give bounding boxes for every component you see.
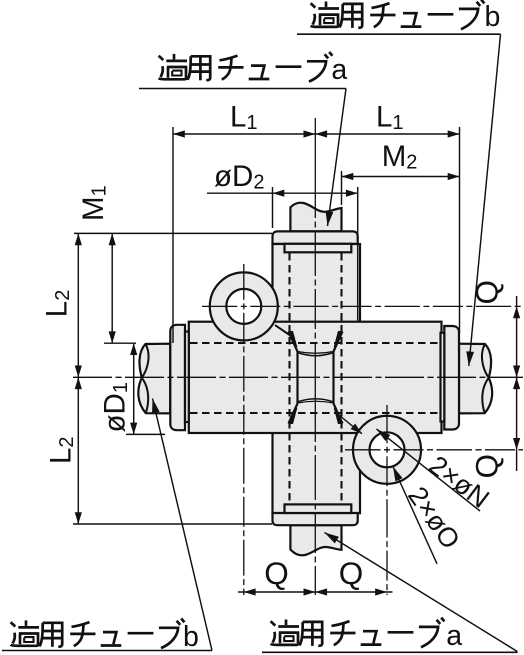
hidden line: tube bore left (vertical) bbox=[288, 253, 290, 504]
collar right lip bbox=[441, 333, 445, 422]
collar bottom lip bbox=[285, 504, 352, 513]
M1 bottom extension line bbox=[104, 342, 136, 344]
center bore funnel bottom-right bbox=[334, 404, 343, 424]
vertical body upper bbox=[273, 244, 361, 322]
collar right (release ring, right) bbox=[444, 326, 459, 430]
center bore shoulder arc bottom bbox=[298, 399, 334, 402]
svg-text:a: a bbox=[331, 54, 347, 86]
chamfer edge at boss2 with arrow bbox=[340, 416, 363, 434]
hidden line: tube bore right (vertical) bbox=[340, 253, 342, 504]
label: tekiyou tube b (bottom left) bbox=[11, 619, 185, 649]
boss1 horizontal centerline bbox=[202, 305, 523, 307]
collar top lip bbox=[285, 244, 352, 253]
M1 dim line bbox=[111, 233, 113, 343]
boss hole bottom-right inner (øN) bbox=[370, 432, 405, 467]
L1 left extension line bbox=[172, 127, 174, 343]
svg-text:b: b bbox=[183, 621, 199, 653]
funnel wedge blobs bbox=[288, 331, 342, 424]
leader 2xoN bbox=[377, 429, 481, 511]
svg-text:b: b bbox=[485, 1, 501, 33]
right tube break wave second curve bbox=[482, 344, 489, 413]
underline top a bbox=[139, 88, 346, 90]
collar top (release ring, top) bbox=[273, 231, 358, 243]
left tube break wave second curve bbox=[142, 344, 149, 413]
collar left lip bbox=[185, 332, 189, 423]
hidden line: tube bore top (horizontal) bbox=[190, 342, 440, 344]
L1 right extension line bbox=[459, 127, 461, 333]
collar bottom (release ring, bottom) bbox=[273, 513, 358, 525]
oD1 bottom extension line bbox=[126, 433, 165, 435]
leader 2xoO bbox=[393, 467, 437, 564]
boss2 vertical centerline bbox=[386, 405, 388, 595]
vertical body lower bbox=[273, 433, 361, 513]
tube a top (applicable tube a, top port) bbox=[290, 203, 341, 232]
L2 lower dim line bbox=[77, 377, 79, 524]
L1 left dim line bbox=[173, 133, 315, 135]
underline top right b bbox=[297, 33, 501, 35]
horizontal body bbox=[189, 322, 442, 433]
label: tekiyou tube b (top right) bbox=[311, 0, 485, 29]
L1 right dim line bbox=[315, 133, 459, 135]
oD2 dim line with tail bbox=[207, 192, 273, 194]
boss hole top-left inner (øN) bbox=[226, 289, 261, 324]
oD1 dim line bbox=[133, 343, 135, 434]
tube b right (applicable tube b, right port) bbox=[459, 344, 492, 414]
underline bottom left b bbox=[2, 650, 212, 652]
leader tube b bottom left bbox=[153, 399, 213, 651]
Q bottom right dim line bbox=[315, 591, 387, 593]
center bore shoulder arc top bbox=[298, 353, 334, 356]
hidden line: tube bore bottom (horizontal) bbox=[190, 412, 440, 414]
leader tube b top right bbox=[469, 34, 501, 366]
oD2 left extension bbox=[272, 187, 274, 228]
label: tekiyou tube a (bottom) bbox=[271, 618, 445, 648]
leader tube a bottom bbox=[325, 533, 518, 652]
collar left (release ring, left) bbox=[170, 325, 185, 430]
Q bottom dim line overshoot bbox=[238, 591, 393, 593]
svg-text:Q: Q bbox=[469, 280, 505, 305]
center bore funnel bottom-left bbox=[289, 404, 298, 424]
svg-text:a: a bbox=[446, 620, 462, 652]
center bore funnel top-left bbox=[289, 332, 298, 352]
boss hole top-left (outer circle øO) bbox=[210, 272, 278, 340]
tube a bottom (applicable tube a, bottom port) bbox=[290, 525, 341, 555]
Q right upper dim line bbox=[516, 306, 518, 377]
center bore waist left bbox=[296, 352, 298, 404]
vertical centerline of drawing bbox=[314, 118, 316, 595]
L2 upper dim line bbox=[77, 233, 79, 377]
svg-text:Q: Q bbox=[264, 555, 289, 591]
center bore funnel top-right bbox=[334, 332, 343, 352]
horizontal centerline of drawing bbox=[73, 376, 523, 378]
L2 lower extension line bbox=[73, 523, 272, 525]
chamfer edge at boss1 bbox=[275, 325, 292, 336]
Q right lower dim line bbox=[516, 377, 518, 450]
oD2 right extension bbox=[357, 187, 359, 321]
svg-text:Q: Q bbox=[339, 555, 364, 591]
center bore waist right bbox=[332, 352, 334, 404]
boss hole bottom-right (outer circle øO) bbox=[353, 416, 421, 484]
underline bottom a bbox=[262, 651, 518, 653]
label: tekiyou tube a (top) bbox=[159, 52, 333, 82]
top-of-collar extension line bbox=[74, 232, 272, 234]
boss1 vertical centerline bbox=[243, 264, 245, 595]
tube b left (applicable tube b, left port) bbox=[138, 344, 170, 414]
M2 left extension line bbox=[341, 171, 343, 205]
M2 dim line bbox=[342, 176, 460, 178]
leader tube a top bbox=[328, 89, 347, 227]
Q bottom left dim line bbox=[244, 591, 315, 593]
boss2 horizontal centerline bbox=[345, 449, 523, 451]
